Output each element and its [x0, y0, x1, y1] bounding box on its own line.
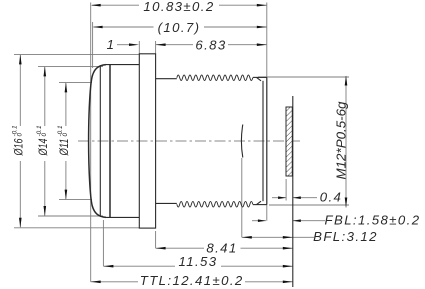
svg-text:TTL:12.41±0.2: TTL:12.41±0.2: [140, 273, 244, 288]
svg-text:BFL:3.12: BFL:3.12: [313, 229, 378, 244]
svg-text:0: 0: [41, 133, 48, 137]
svg-text:Ø11: Ø11: [59, 139, 71, 157]
svg-text:Ø16: Ø16: [14, 138, 26, 156]
svg-text:M12*P0.5-6g: M12*P0.5-6g: [335, 101, 349, 179]
svg-text:FBL:1.58±0.2: FBL:1.58±0.2: [325, 212, 421, 227]
svg-text:1: 1: [107, 37, 116, 52]
svg-text:0: 0: [62, 133, 69, 137]
svg-text:(10.7): (10.7): [158, 20, 201, 35]
svg-text:6.83: 6.83: [195, 38, 226, 53]
svg-text:Ø14: Ø14: [38, 139, 50, 157]
svg-text:0: 0: [17, 133, 24, 137]
svg-text:11.53: 11.53: [178, 254, 217, 269]
svg-text:10.83±0.2: 10.83±0.2: [143, 0, 214, 14]
svg-text:0.4: 0.4: [320, 190, 343, 205]
